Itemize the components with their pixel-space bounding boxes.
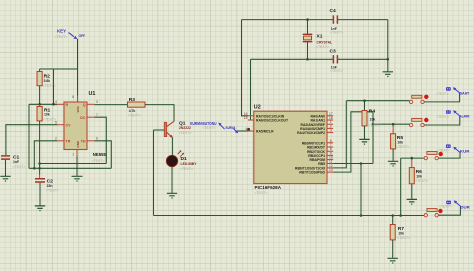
svg-text:<TEXT>: <TEXT> bbox=[55, 35, 68, 39]
wire button3 right to terminal bbox=[438, 152, 460, 158]
capacitor C4 bbox=[330, 8, 344, 34]
svg-text:1nF: 1nF bbox=[13, 160, 19, 164]
wire button2 right to terminal bbox=[424, 116, 460, 125]
switch SW (logic toggle) bbox=[55, 29, 86, 39]
wire pin 11 row bbox=[333, 163, 373, 165]
wire reset row bbox=[29, 103, 57, 105]
wire pin 12 to row1 bbox=[333, 101, 346, 168]
svg-text:6: 6 bbox=[96, 137, 98, 141]
svg-text:<TEXT>: <TEXT> bbox=[439, 205, 452, 209]
svg-text:<TEXT>: <TEXT> bbox=[180, 167, 193, 171]
svg-text:7: 7 bbox=[96, 113, 98, 117]
wire terminal to pin 4 bbox=[238, 130, 249, 132]
resistor R2 bbox=[37, 69, 56, 104]
resistor R6 bbox=[409, 158, 428, 184]
wire U1 GND to ground bbox=[76, 157, 78, 177]
resistor R3 bbox=[128, 97, 146, 117]
svg-text:<TEXT>: <TEXT> bbox=[437, 148, 450, 152]
svg-text:KEY: KEY bbox=[57, 29, 66, 34]
svg-text:<TEXT>: <TEXT> bbox=[436, 92, 449, 96]
wire right vertical to ground bbox=[387, 20, 389, 72]
ground under D1 bbox=[167, 193, 177, 198]
terminal for button 1 bbox=[436, 87, 470, 96]
svg-text:4: 4 bbox=[55, 100, 57, 104]
junction at pin 4 bbox=[247, 128, 250, 131]
wire R7 to ground bbox=[392, 240, 394, 258]
svg-text:C3: C3 bbox=[330, 49, 337, 55]
wire TR row bbox=[34, 141, 57, 169]
junction R6 / row3 bbox=[411, 157, 414, 160]
svg-text:TH: TH bbox=[81, 140, 86, 144]
svg-text:22n: 22n bbox=[47, 184, 53, 188]
resistor R5 bbox=[391, 124, 410, 149]
svg-text:15: 15 bbox=[244, 116, 248, 120]
svg-text:4: 4 bbox=[245, 127, 247, 131]
wire TH loop bbox=[94, 141, 111, 169]
svg-text:GND: GND bbox=[76, 140, 80, 148]
capacitor C3 bbox=[330, 49, 344, 74]
svg-text:3: 3 bbox=[330, 129, 332, 133]
svg-text:8: 8 bbox=[72, 95, 74, 99]
svg-text:<TEXT>: <TEXT> bbox=[316, 45, 329, 49]
wire bottom rail bbox=[154, 215, 425, 217]
wire second vertical to pin 15 bbox=[248, 59, 251, 120]
wire upper ground rail bbox=[40, 163, 107, 165]
svg-text:X1: X1 bbox=[317, 34, 323, 40]
svg-text:RA4/T0CKI/CMP2: RA4/T0CKI/CMP2 bbox=[297, 131, 325, 135]
ground for crystal bbox=[383, 72, 393, 77]
svg-text:<TEXT>: <TEXT> bbox=[368, 123, 381, 127]
svg-text:<TEXT>: <TEXT> bbox=[330, 31, 343, 35]
pin numbers 6 7 8 9 10 11 12 13 bbox=[329, 139, 333, 172]
svg-text:2: 2 bbox=[55, 137, 57, 141]
svg-text:U2: U2 bbox=[254, 105, 261, 111]
wire left vertical rail bbox=[28, 104, 30, 168]
svg-text:<TEXT>: <TEXT> bbox=[46, 189, 59, 193]
junction branch / bottom rail bbox=[360, 214, 363, 217]
junction X1 bottom bbox=[306, 58, 309, 61]
wire top horizontal row bbox=[40, 68, 78, 70]
junction R5 / row2 bbox=[392, 123, 395, 126]
wire button4 right to terminal bbox=[438, 206, 460, 215]
wire pin 13 up bbox=[333, 112, 373, 172]
svg-text:<TEXT>: <TEXT> bbox=[43, 84, 56, 88]
wire C2 to ground bbox=[39, 183, 41, 206]
terminal arrow into U2 pin 4 bbox=[218, 123, 238, 134]
svg-text:10k: 10k bbox=[398, 231, 404, 235]
svg-text:NE555: NE555 bbox=[93, 152, 107, 157]
ground under U1 bbox=[72, 176, 83, 181]
ground under C1 bbox=[0, 176, 10, 181]
wire LED to ground bbox=[171, 167, 173, 194]
junction R7 / rail bbox=[391, 214, 394, 217]
svg-text:CRYSTAL: CRYSTAL bbox=[317, 41, 333, 45]
svg-text:<TEXT>: <TEXT> bbox=[436, 115, 449, 119]
terminal for button 3 bbox=[437, 144, 470, 153]
junction pin11 row / branch bbox=[360, 162, 363, 165]
wire vertical to pin 11 row bbox=[372, 112, 374, 164]
svg-text:OFF: OFF bbox=[79, 34, 86, 38]
junction TR vertical/lower rail bbox=[33, 167, 36, 170]
wire R3 to Q1 collector bbox=[145, 105, 174, 122]
resistor R7 bbox=[390, 216, 410, 241]
terminal for button 4 bbox=[439, 200, 470, 209]
LED D1 bbox=[166, 150, 197, 171]
wire lower loop rail bbox=[29, 167, 111, 169]
svg-text:VCC: VCC bbox=[76, 105, 80, 112]
svg-text:3: 3 bbox=[96, 100, 98, 104]
svg-text:10k: 10k bbox=[44, 113, 50, 117]
svg-text:10k: 10k bbox=[397, 140, 403, 144]
ground under R6 bbox=[407, 199, 417, 204]
svg-text:R4: R4 bbox=[369, 109, 376, 115]
svg-text:1: 1 bbox=[72, 153, 74, 157]
svg-text:ALARM: ALARM bbox=[460, 114, 470, 118]
wire R1 bottom to C2 column bbox=[39, 121, 41, 175]
svg-text:SAAT: SAAT bbox=[460, 91, 470, 95]
pin numbers 17 18 1 2 3 bbox=[329, 112, 333, 133]
ground under R5 bbox=[388, 161, 398, 166]
svg-text:DUR: DUR bbox=[460, 206, 470, 210]
resistor R4 bbox=[362, 101, 381, 127]
junction row2 / vertical bbox=[372, 123, 375, 126]
button 3 bbox=[424, 152, 443, 160]
svg-text:R3: R3 bbox=[129, 97, 136, 103]
svg-text:10k: 10k bbox=[370, 118, 376, 122]
junction column/lower rail bbox=[38, 167, 41, 170]
wire C1 to ground bbox=[5, 160, 7, 177]
wire Q1 emitter to LED bbox=[171, 138, 173, 155]
wire left vertical to pin 16 bbox=[242, 20, 249, 116]
svg-text:<TEXT>: <TEXT> bbox=[179, 131, 192, 135]
wire OSC1 row (C4 row) bbox=[242, 19, 388, 21]
svg-text:RB5: RB5 bbox=[318, 162, 325, 166]
svg-text:10k: 10k bbox=[416, 174, 422, 178]
svg-text:5.6k: 5.6k bbox=[44, 79, 51, 83]
svg-text:<TEXT>: <TEXT> bbox=[330, 69, 343, 73]
junction column/upper rail bbox=[38, 162, 41, 165]
svg-text:5: 5 bbox=[55, 120, 57, 124]
op-amp timer U1 NE555 bbox=[57, 91, 95, 156]
microcontroller U2 PIC16F628A bbox=[248, 105, 333, 184]
wire DC loop bbox=[94, 117, 106, 163]
ground under R4 bbox=[359, 139, 369, 144]
svg-text:<TEXT>: <TEXT> bbox=[415, 179, 428, 183]
capacitor C2 bbox=[35, 175, 59, 193]
wire row1 bbox=[346, 100, 409, 102]
svg-text:<TEXT>: <TEXT> bbox=[92, 159, 105, 163]
wire CV row to C1 bbox=[6, 125, 57, 155]
svg-text:2N2222: 2N2222 bbox=[179, 126, 191, 130]
wire row3 drop to bottom rail bbox=[400, 158, 402, 215]
wire vertical drop to reset row bbox=[53, 69, 55, 104]
wire VCC down to U1 pin 8 bbox=[77, 69, 79, 96]
capacitor C1 bbox=[1, 155, 26, 169]
button 2 bbox=[409, 118, 428, 127]
svg-text:<TEXT>: <TEXT> bbox=[203, 126, 216, 130]
svg-text:CV: CV bbox=[66, 124, 72, 128]
junction R4 / row1 bbox=[363, 99, 366, 102]
svg-text:<TEXT>: <TEXT> bbox=[13, 165, 26, 169]
crystal X1 bbox=[303, 20, 332, 60]
svg-text:<TEXT>: <TEXT> bbox=[255, 191, 268, 195]
svg-text:LED-BIBY: LED-BIBY bbox=[181, 162, 198, 166]
svg-text:13: 13 bbox=[329, 168, 333, 172]
svg-text:<TEXT>: <TEXT> bbox=[128, 113, 141, 117]
junction reset row / drop bbox=[52, 103, 55, 106]
svg-text:R: R bbox=[66, 103, 69, 107]
wire switch to VCC rail corner bbox=[77, 39, 79, 69]
button 1 bbox=[409, 95, 428, 104]
wire button1 right to terminal bbox=[424, 93, 459, 102]
junction X1 top bbox=[306, 18, 309, 21]
svg-text:RB7/T1OSI/PGD: RB7/T1OSI/PGD bbox=[299, 171, 325, 175]
ground under C2 bbox=[35, 206, 45, 211]
svg-text:KUR: KUR bbox=[460, 150, 470, 154]
svg-text:C4: C4 bbox=[330, 8, 337, 14]
svg-text:U1: U1 bbox=[89, 91, 96, 97]
svg-text:PIC16F628A: PIC16F628A bbox=[255, 185, 282, 190]
svg-text:<TEXT>: <TEXT> bbox=[397, 236, 410, 240]
svg-text:11: 11 bbox=[329, 160, 333, 164]
svg-text:<TEXT>: <TEXT> bbox=[396, 145, 409, 149]
button 4 bbox=[424, 209, 443, 217]
wire Q1 base rail down bbox=[153, 130, 155, 216]
wire OSC2 row (C3 row) bbox=[251, 58, 388, 60]
svg-text:4.7k: 4.7k bbox=[129, 109, 136, 113]
ground under R7 bbox=[388, 258, 398, 263]
transistor Q1 2N2222 bbox=[154, 120, 192, 138]
svg-text:RA6/OSC2/CLKOUT: RA6/OSC2/CLKOUT bbox=[256, 119, 289, 123]
svg-text:DC: DC bbox=[80, 116, 86, 120]
junction R2/R1 node bbox=[38, 103, 41, 106]
svg-text:Q: Q bbox=[83, 103, 86, 107]
resistor R1 bbox=[37, 104, 56, 121]
svg-text:TR: TR bbox=[66, 140, 71, 144]
wire row2 bbox=[373, 123, 409, 125]
wire R5 to ground bbox=[392, 149, 394, 161]
junction row3 drop / rail bbox=[399, 214, 402, 217]
junction C3 row / vertical bbox=[387, 58, 390, 61]
terminal for button 2 bbox=[436, 110, 469, 119]
wire Q output to R3 bbox=[94, 104, 127, 106]
wire row3 bbox=[401, 157, 424, 159]
wire branch to bottom rail bbox=[360, 164, 362, 216]
wire R4 to ground bbox=[364, 126, 366, 139]
wire R6 to ground bbox=[411, 184, 413, 200]
svg-text:RA5/MCLR: RA5/MCLR bbox=[256, 130, 274, 134]
